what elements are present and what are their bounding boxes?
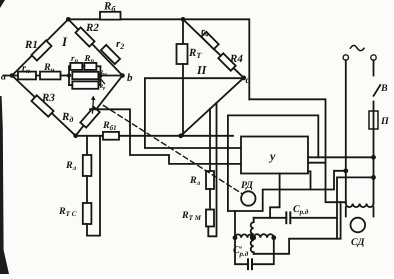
wire triangle II diagonal [183, 19, 244, 78]
wire C'rd loop right [252, 238, 274, 265]
resistor Rr bottom branch [72, 81, 98, 88]
wire Rtc loop bottom and return riser [87, 136, 100, 236]
resistor Rtc [83, 203, 92, 224]
svg-text:RТ М: RТ М [181, 210, 202, 222]
wire U output P2 [270, 174, 280, 218]
wire RT to node dot [182, 64, 184, 136]
svg-text:СД: СД [351, 237, 366, 248]
wire bridge edge a-bottom [12, 76, 76, 136]
supply line B to switch [373, 60, 375, 75]
mechanical link dashed line [104, 106, 242, 194]
wire U input 2 from slider tap [90, 109, 241, 164]
wire inner branch a to rn [12, 75, 18, 77]
switch V blade [374, 85, 381, 96]
inductor winding right RD [254, 234, 274, 237]
svg-text:Rш: Rш [99, 70, 108, 76]
slider arrow bottom resistor [92, 100, 95, 114]
scan artifact left edge [0, 96, 9, 274]
slider arrow middle resistor [99, 77, 104, 83]
resistor rn [18, 72, 36, 80]
wire RT riser top [182, 19, 184, 44]
wire bridge edge a-apex [12, 19, 68, 75]
wire winding return path [254, 202, 341, 254]
resistor Rb1 [103, 132, 119, 140]
arrowhead slider bottom [91, 96, 96, 101]
resistor RT [177, 44, 188, 64]
svg-text:П: П [380, 116, 390, 127]
svg-text:Rл: Rл [189, 175, 201, 187]
resistor Rl left line [83, 155, 92, 176]
svg-text:rп: rп [71, 53, 79, 65]
node RT bottom dot [178, 133, 183, 138]
wire mid bus to supply A dot [228, 171, 346, 211]
inductor winding SD [346, 204, 374, 208]
resistor R1 [31, 40, 51, 60]
svg-text:РД: РД [241, 180, 254, 191]
scan artifact top left corner [0, 0, 5, 8]
AC source tilde terminals [343, 55, 348, 60]
resistor Rl right line [206, 171, 214, 189]
node top RT dot [181, 17, 186, 22]
node c dot [241, 76, 246, 81]
arrowhead slider middle [96, 77, 100, 81]
wire top bus from bridge apex to corner above node c [68, 19, 249, 99]
svg-text:R2: R2 [85, 22, 99, 34]
resistor Rn [40, 72, 61, 80]
wire Rtm loop return [208, 103, 216, 236]
wire diagonal from dot to node c [181, 78, 244, 136]
node b dot [120, 73, 125, 78]
capacitor C'rd plates [247, 259, 249, 269]
resistor rp [70, 63, 82, 70]
fuse P [369, 111, 378, 129]
wire rn-Rn [36, 75, 40, 77]
wire between Rl and Rtc [86, 176, 88, 203]
resistor Rb [100, 12, 121, 20]
wire bottom branch stubs [69, 84, 72, 86]
wire right sensor riser [209, 109, 211, 171]
svg-text:В: В [380, 83, 388, 94]
wire Rn to inner node [61, 75, 70, 77]
wire right node to b [100, 75, 122, 77]
node inner left dot [67, 73, 71, 77]
svg-text:у: у [268, 149, 276, 163]
node supply A dot [343, 168, 348, 173]
wire U stub to V1 column [308, 162, 326, 164]
wire U stub down to mid bus [308, 171, 311, 189]
svg-text:Rр: Rр [99, 84, 107, 90]
svg-text:c: c [246, 75, 251, 86]
svg-text:R4: R4 [229, 53, 243, 65]
wire riser to motor left dot [234, 211, 236, 238]
svg-text:Rн: Rн [43, 62, 55, 74]
wire left sensor riser 1 [86, 136, 88, 155]
wire feedback rectangle above U [228, 115, 318, 211]
svg-text:r2: r2 [116, 38, 124, 51]
node a dot [10, 73, 15, 78]
svg-text:Rб1: Rб1 [102, 120, 117, 132]
wire stub left of node a [4, 75, 13, 77]
resistor r2 [101, 45, 120, 64]
wire parallel network left bus [68, 66, 70, 85]
svg-text:Rб: Rб [103, 1, 116, 14]
supply line A vertical [345, 60, 347, 203]
node motor winding middle dot [251, 235, 256, 240]
resistor r4 [201, 32, 218, 49]
node motor winding left dot [233, 235, 238, 240]
wire parallel network right bus [99, 66, 101, 85]
resistor Rsh middle branch [72, 72, 98, 79]
wire bottom vertex to Rb1 [76, 135, 103, 137]
motor RD circle [241, 191, 255, 205]
supply line B lower [373, 129, 375, 204]
svg-text:I: I [61, 34, 68, 49]
AC tilde symbol [350, 46, 365, 51]
inductor winding left RD [235, 234, 254, 237]
svg-text:Rд: Rд [61, 111, 73, 124]
svg-text:rн: rн [22, 63, 30, 75]
resistor Rd [80, 107, 99, 128]
wire rp-Rp top branch stubs [69, 65, 70, 67]
wire bridge edge bottom-b [76, 76, 123, 136]
wire from supply B dot down [337, 177, 374, 238]
svg-text:II: II [196, 63, 208, 77]
svg-text:r4: r4 [201, 27, 209, 39]
wire SD winding stubs [345, 207, 347, 217]
node supply B lower dot [371, 175, 376, 180]
wire Rb1 to U amplifier [119, 135, 233, 137]
svg-text:Rп: Rп [84, 53, 95, 65]
resistor Rp [84, 63, 96, 70]
svg-text:Cр.д: Cр.д [293, 204, 309, 216]
resistor R3 [31, 95, 53, 116]
node apex junction dot [66, 17, 71, 22]
svg-text:Rл: Rл [65, 160, 77, 172]
wire bridge edge apex-b [68, 19, 122, 75]
resistor R2 [75, 27, 94, 46]
op-amp block U [241, 137, 308, 174]
wire switch to fuse [373, 102, 375, 112]
svg-text:R3: R3 [41, 92, 55, 104]
wire U to supply B [308, 156, 374, 158]
svg-text:RТ: RТ [188, 47, 202, 60]
node supply B upper dot [371, 155, 376, 160]
node motor winding right dot [271, 235, 276, 240]
wire between Rl2 and Rtm [209, 189, 211, 210]
wire capacitor Crd row [254, 217, 287, 219]
svg-text:b: b [127, 72, 133, 84]
svg-text:a: a [1, 72, 6, 83]
node inner right dot [98, 73, 102, 77]
capacitor Crd plates [285, 212, 287, 223]
wire b row bus to c [145, 78, 244, 148]
wire V1 from c corner to supply A row [249, 99, 345, 202]
inductor winding vertical RD [251, 218, 254, 254]
resistor R4 [218, 53, 235, 70]
svg-text:RТ С: RТ С [58, 206, 77, 218]
node bottom vertex dot [73, 134, 78, 139]
wire C'rd loop left [235, 238, 248, 265]
motor SD circle [351, 218, 366, 233]
svg-text:R1: R1 [24, 39, 38, 51]
resistor Rtm [206, 210, 214, 227]
